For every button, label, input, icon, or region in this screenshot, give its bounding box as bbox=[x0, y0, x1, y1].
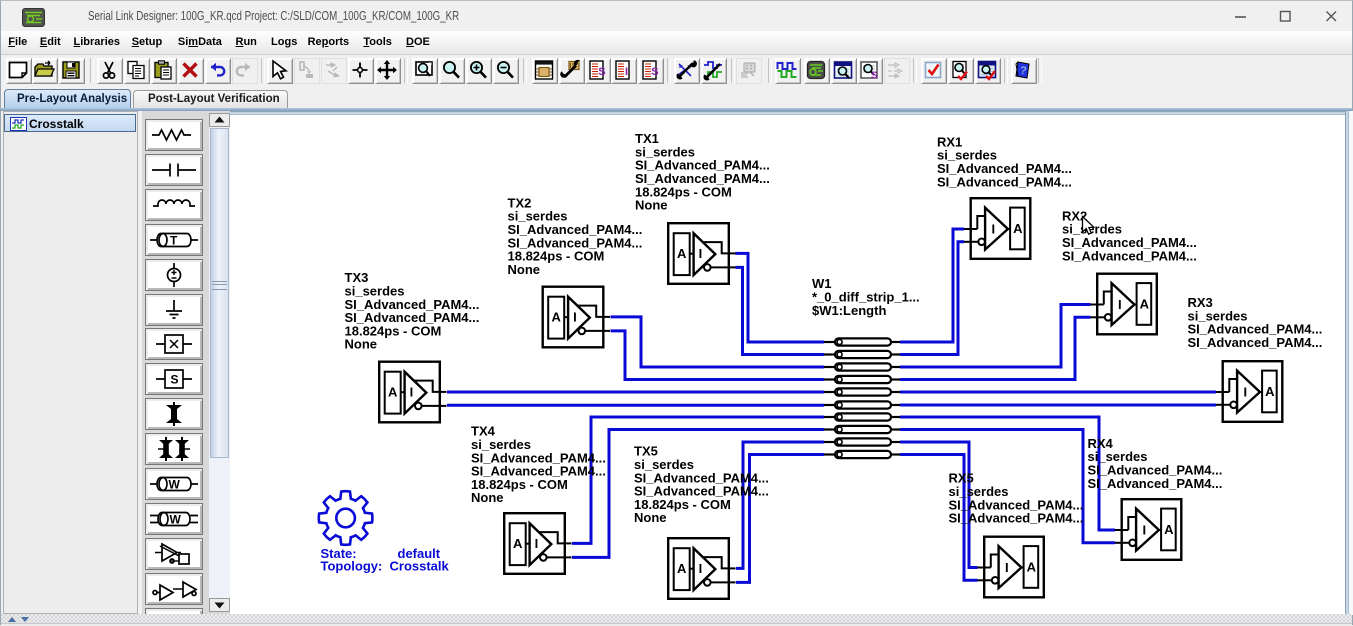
label TX1 bbox=[635, 131, 770, 213]
wire TX1 N to W1.2 bbox=[736, 267, 825, 354]
wire W1.2 to RX1 N bbox=[900, 242, 964, 355]
label RX1 bbox=[937, 134, 1072, 189]
svg-text:S: S bbox=[171, 373, 179, 387]
state gear icon bbox=[319, 491, 373, 545]
svg-text:None: None bbox=[635, 198, 668, 213]
svg-text:W: W bbox=[170, 512, 182, 526]
palette tool: clipped symbol bbox=[145, 608, 203, 626]
wire TX4 P to W1.7 bbox=[572, 417, 824, 543]
wire W1.9 to RX5 P bbox=[900, 442, 978, 568]
label W1 bbox=[812, 276, 920, 318]
palette tool: ground symbol bbox=[145, 294, 203, 326]
transmission line W1 segment 1 bbox=[824, 338, 900, 345]
wire W1.5 to RX3 P bbox=[900, 391, 1216, 394]
palette tool: current source symbol bbox=[145, 259, 203, 291]
svg-text:SI_Advanced_PAM4...: SI_Advanced_PAM4... bbox=[1062, 248, 1197, 263]
transmission line W1 segment 9 bbox=[824, 438, 900, 445]
wire TX3 P to W1.5 bbox=[447, 391, 824, 394]
label RX4 bbox=[1088, 436, 1223, 491]
transmission line W1 segment 6 bbox=[824, 401, 900, 408]
wire TX2 P to W1.3 bbox=[611, 317, 825, 367]
state text bbox=[321, 546, 450, 574]
svg-text:SI_Advanced_PAM4...: SI_Advanced_PAM4... bbox=[937, 174, 1072, 189]
palette tool: capacitor symbol bbox=[145, 154, 203, 186]
wire W1.1 to RX1 P bbox=[900, 229, 964, 342]
svg-text:SI_Advanced_PAM4...: SI_Advanced_PAM4... bbox=[1188, 335, 1323, 350]
palette tool: inductor symbol bbox=[145, 189, 203, 221]
svg-text:None: None bbox=[471, 490, 504, 505]
wire TX3 N to W1.6 bbox=[447, 404, 824, 407]
svg-text:W: W bbox=[169, 478, 181, 492]
svg-text:S: S bbox=[598, 66, 605, 78]
wire TX5 P to W1.9 bbox=[736, 442, 824, 568]
buffer RX5 bbox=[978, 537, 1044, 598]
palette tool: S-parameter block symbol bbox=[145, 363, 203, 395]
svg-text:None: None bbox=[345, 337, 378, 352]
wire W1.8 to RX4 N bbox=[900, 430, 1115, 543]
wire W1.6 to RX3 N bbox=[900, 404, 1216, 407]
wire W1.7 to RX4 P bbox=[900, 417, 1115, 530]
label TX3 bbox=[345, 270, 480, 352]
palette tool: coupled W-element symbol bbox=[145, 503, 203, 535]
buffer TX3 bbox=[379, 362, 446, 423]
svg-text:S: S bbox=[871, 71, 878, 82]
buffer TX5 bbox=[668, 538, 735, 599]
wire W1.4 to RX2 N bbox=[900, 317, 1091, 379]
transmission line W1 segment 7 bbox=[824, 413, 900, 420]
palette tool: W-element symbol bbox=[145, 468, 203, 500]
buffer RX4 bbox=[1115, 499, 1181, 560]
buffer RX1 bbox=[964, 198, 1030, 259]
svg-text:SI_Advanced_PAM4...: SI_Advanced_PAM4... bbox=[949, 511, 1084, 526]
label RX5 bbox=[949, 471, 1084, 526]
wire W1.10 to RX5 N bbox=[900, 455, 978, 581]
palette tool: resistor symbol bbox=[145, 119, 203, 151]
transmission line W1 segment 5 bbox=[824, 388, 900, 395]
buffer TX4 bbox=[504, 513, 571, 574]
buffer TX1 bbox=[668, 223, 735, 284]
label RX3 bbox=[1188, 295, 1323, 350]
svg-text:T: T bbox=[170, 233, 178, 247]
palette tool: via symbol bbox=[145, 398, 203, 430]
svg-text:S: S bbox=[651, 66, 658, 78]
wire TX4 N to W1.8 bbox=[572, 430, 824, 558]
wire TX2 N to W1.4 bbox=[611, 331, 825, 380]
palette tool: T-element transmission line symbol bbox=[145, 224, 203, 256]
palette tool: IBIS buffer symbol bbox=[145, 538, 203, 570]
label RX2 bbox=[1062, 208, 1197, 263]
label TX2 bbox=[508, 195, 643, 277]
transmission line W1 segment 10 bbox=[824, 451, 900, 458]
buffer RX3 bbox=[1216, 361, 1282, 422]
svg-text:$W1:Length: $W1:Length bbox=[812, 303, 886, 318]
transmission line W1 segment 2 bbox=[824, 351, 900, 358]
transmission line W1 segment 4 bbox=[824, 376, 900, 383]
wire TX5 N to W1.10 bbox=[736, 455, 824, 583]
svg-text:None: None bbox=[634, 510, 667, 525]
transmission line W1 segment 3 bbox=[824, 363, 900, 370]
svg-text:SI_Advanced_PAM4...: SI_Advanced_PAM4... bbox=[1088, 476, 1223, 491]
transmission line W1 segment 8 bbox=[824, 426, 900, 433]
mouse cursor bbox=[1083, 217, 1094, 235]
svg-text:None: None bbox=[508, 262, 541, 277]
svg-text:?: ? bbox=[894, 63, 898, 70]
label TX4 bbox=[471, 424, 606, 506]
wire W1.3 to RX2 P bbox=[900, 305, 1091, 368]
buffer RX2 bbox=[1091, 274, 1157, 335]
palette tool: TX-RX buffer pair symbol bbox=[145, 573, 203, 605]
svg-text:Crosstalk: Crosstalk bbox=[390, 559, 450, 574]
palette tool: differential via pair symbol bbox=[145, 433, 203, 465]
svg-text:Topology:: Topology: bbox=[321, 559, 383, 574]
palette tool: X-block symbol bbox=[145, 328, 203, 360]
wire TX1 P to W1.1 bbox=[736, 253, 825, 342]
buffer TX2 bbox=[543, 287, 610, 348]
svg-text:I: I bbox=[625, 66, 628, 78]
label TX5 bbox=[634, 444, 769, 526]
